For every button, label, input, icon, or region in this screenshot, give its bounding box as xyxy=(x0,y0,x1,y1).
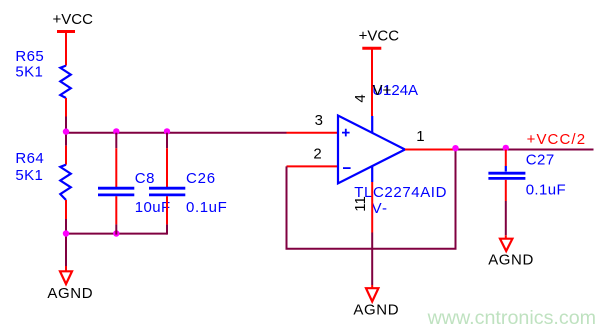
capacitor C26 xyxy=(149,133,185,235)
resistor R65 bottom pin xyxy=(65,98,67,117)
wire bottom vertical xyxy=(65,219,67,266)
pin 11 lead xyxy=(371,182,373,233)
power +VCC op-amp symbol xyxy=(362,48,381,116)
svg-text:C26: C26 xyxy=(186,170,216,187)
node junction C8 top xyxy=(113,128,119,134)
svg-text:3: 3 xyxy=(315,112,323,129)
pin 3 lead xyxy=(287,132,339,134)
node junction feedback xyxy=(452,145,458,151)
node junction C27 xyxy=(503,145,509,151)
svg-text:C27: C27 xyxy=(526,152,555,169)
svg-text:+VCC/2: +VCC/2 xyxy=(527,131,587,148)
svg-text:+VCC: +VCC xyxy=(359,28,400,45)
resistor R64 top pin xyxy=(65,146,67,165)
svg-text:5K1: 5K1 xyxy=(15,64,43,81)
svg-text:10uF: 10uF xyxy=(135,199,171,216)
ground AGND middle xyxy=(353,285,399,319)
ground AGND right xyxy=(488,235,534,268)
node junction C26 top xyxy=(164,128,170,134)
svg-text:2: 2 xyxy=(313,145,321,162)
svg-text:0.1uF: 0.1uF xyxy=(526,182,566,199)
wire divider vertical xyxy=(65,117,67,146)
svg-text:www.cntronics.com: www.cntronics.com xyxy=(427,307,596,329)
wire output rail xyxy=(456,149,594,151)
pin 1 output lead xyxy=(405,149,456,151)
svg-text:AGND: AGND xyxy=(353,302,399,319)
svg-text:V+: V+ xyxy=(373,82,392,99)
svg-text:11: 11 xyxy=(352,196,369,212)
resistor R64 xyxy=(60,165,71,200)
svg-text:R64: R64 xyxy=(15,150,44,167)
svg-text:AGND: AGND xyxy=(47,285,93,302)
svg-text:5K1: 5K1 xyxy=(15,167,43,184)
svg-text:R65: R65 xyxy=(15,48,44,65)
pin 2 lead xyxy=(287,165,339,167)
wire V- to ground xyxy=(371,233,373,286)
svg-text:AGND: AGND xyxy=(488,251,534,268)
wire main rail xyxy=(66,132,287,134)
svg-text:+VCC: +VCC xyxy=(53,11,94,28)
ground AGND left xyxy=(47,266,93,302)
node junction C8 bottom xyxy=(113,230,119,236)
svg-text:C8: C8 xyxy=(135,170,155,187)
wire feedback loop xyxy=(287,150,456,249)
resistor R65 xyxy=(60,66,71,98)
capacitor C8 xyxy=(98,133,134,235)
resistor R64 bottom pin xyxy=(65,200,67,219)
power +VCC left symbol xyxy=(57,32,75,66)
node junction left xyxy=(63,128,69,134)
svg-text:4: 4 xyxy=(352,94,369,102)
svg-text:V-: V- xyxy=(372,200,389,217)
svg-text:1: 1 xyxy=(416,128,424,145)
svg-text:0.1uF: 0.1uF xyxy=(186,199,227,216)
wire bottom rail xyxy=(66,233,167,235)
node junction bottom left xyxy=(63,230,69,236)
op-amp U1 triangle xyxy=(338,116,405,184)
capacitor C27 xyxy=(488,150,525,236)
